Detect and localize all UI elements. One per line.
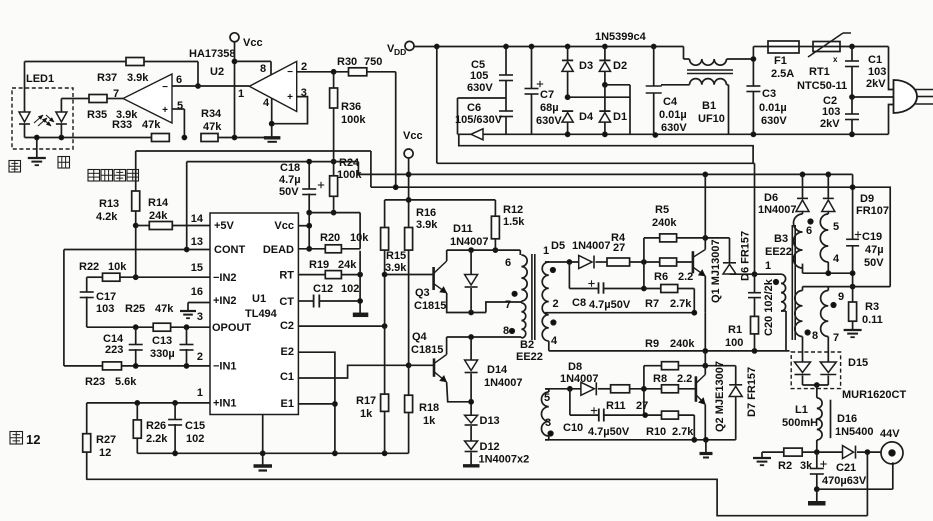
thermistor RT1 <box>799 46 813 48</box>
output terminal 44V <box>881 442 903 464</box>
svg-text:240k: 240k <box>670 338 695 350</box>
svg-text:105/630V: 105/630V <box>455 114 503 126</box>
bottom AC bus <box>458 133 889 135</box>
resistor R15 <box>384 200 386 228</box>
svg-text:D4: D4 <box>579 111 594 123</box>
resistor R11 <box>611 385 630 393</box>
svg-text:4: 4 <box>263 97 270 109</box>
label red <box>9 161 21 173</box>
wire pin2 out <box>297 71 349 73</box>
svg-text:+IN1: +IN1 <box>213 398 237 410</box>
resistor R16 <box>405 228 413 251</box>
svg-text:Q4: Q4 <box>412 331 428 343</box>
aux phase dots top <box>808 219 813 224</box>
svg-text:+IN2: +IN2 <box>213 295 237 307</box>
fuse F1 <box>768 41 799 53</box>
svg-text:R19: R19 <box>309 259 329 271</box>
svg-text:1.5k: 1.5k <box>503 216 525 228</box>
svg-text:5: 5 <box>833 221 839 233</box>
resistor R37 <box>25 61 127 63</box>
svg-text:4.7µ: 4.7µ <box>279 174 301 186</box>
lower aux winding D <box>827 287 829 291</box>
VDD rail to primary <box>437 162 755 164</box>
svg-text:27: 27 <box>636 400 648 412</box>
choke B1 <box>683 47 685 60</box>
IC U1 TL494 box <box>210 213 298 415</box>
svg-text:D9: D9 <box>860 193 874 205</box>
wire pin1 +IN1 <box>87 402 210 404</box>
svg-text:1N4007: 1N4007 <box>450 236 489 248</box>
svg-text:R18: R18 <box>419 402 439 414</box>
wire C10 branch <box>569 389 571 415</box>
wire pin1-D5 <box>545 261 579 263</box>
svg-text:4.2k: 4.2k <box>96 211 118 223</box>
svg-text:Q2 MJE13007: Q2 MJE13007 <box>714 361 726 432</box>
svg-text:R30: R30 <box>337 56 357 68</box>
svg-text:Q1 MJ13007: Q1 MJ13007 <box>710 239 722 303</box>
svg-text:1N4007: 1N4007 <box>484 377 523 389</box>
svg-text:1: 1 <box>238 88 244 100</box>
svg-text:C1815: C1815 <box>411 344 443 356</box>
svg-text:NTC50-11: NTC50-11 <box>797 80 847 92</box>
svg-text:3.9k: 3.9k <box>127 72 149 84</box>
svg-text:B2: B2 <box>520 339 534 351</box>
transistor Q1 <box>692 251 695 273</box>
capacitor C20 <box>748 292 761 294</box>
svg-text:12: 12 <box>26 432 40 447</box>
B2 secondary upper <box>542 262 549 341</box>
svg-text:44V: 44V <box>880 428 900 440</box>
svg-text:R3: R3 <box>865 301 879 313</box>
svg-text:47k: 47k <box>203 121 222 133</box>
VDD drop wire <box>436 47 438 164</box>
svg-text:47k: 47k <box>155 303 174 315</box>
B2 pin8 wire <box>520 337 522 338</box>
wire E1 pin <box>298 403 335 405</box>
plug symbol <box>894 80 917 113</box>
resistor R5 <box>660 234 677 242</box>
wire RT1 to plug <box>840 46 889 48</box>
pot feed wire <box>136 150 371 152</box>
arrow on bus <box>471 129 483 140</box>
svg-text:7: 7 <box>505 299 511 311</box>
svg-text:C7: C7 <box>540 89 554 101</box>
svg-text:C15: C15 <box>185 420 205 432</box>
resistor R33 <box>152 134 170 142</box>
wire left feedback <box>63 250 65 366</box>
svg-text:UF10: UF10 <box>698 113 725 125</box>
diode D3 <box>567 47 569 61</box>
svg-text:R23: R23 <box>85 376 105 388</box>
svg-text:4.7µ50V: 4.7µ50V <box>589 299 631 311</box>
svg-text:C6: C6 <box>467 102 481 114</box>
svg-text:0.11: 0.11 <box>862 314 883 326</box>
svg-text:C1: C1 <box>868 54 882 66</box>
svg-text:L1: L1 <box>795 404 808 416</box>
svg-text:0.01µ: 0.01µ <box>659 109 687 121</box>
svg-text:−: − <box>287 67 293 78</box>
diode D14 <box>470 337 472 360</box>
primary feed drop <box>754 163 756 274</box>
svg-text:D15: D15 <box>848 357 868 369</box>
resistor R27 <box>83 434 91 452</box>
diode D4 <box>562 110 573 112</box>
svg-text:Vcc: Vcc <box>403 130 423 142</box>
svg-text:5: 5 <box>544 392 550 404</box>
B2 sec lower phase dot <box>548 431 553 436</box>
resistor R12 <box>494 200 496 216</box>
lower aux winding C <box>802 287 804 291</box>
resistor R19 <box>298 274 325 276</box>
ground D12 <box>463 464 480 467</box>
svg-text:C1815: C1815 <box>414 300 446 312</box>
svg-text:−IN1: −IN1 <box>213 361 237 373</box>
ground C21 <box>816 489 818 501</box>
svg-text:R5: R5 <box>655 204 669 216</box>
capacitor C4 <box>653 47 655 87</box>
wire pin5 <box>172 108 184 110</box>
ground R2 <box>761 452 763 458</box>
capacitor C8 <box>598 282 600 293</box>
label yellow <box>58 157 70 169</box>
plug mid wire <box>852 96 894 98</box>
svg-text:CONT: CONT <box>214 244 245 256</box>
svg-text:223: 223 <box>105 344 123 356</box>
ground Q2 <box>700 452 713 455</box>
capacitor C14 <box>135 327 137 344</box>
svg-text:EE22: EE22 <box>516 351 543 363</box>
resistor R4 <box>607 258 630 266</box>
svg-text:630V: 630V <box>761 115 787 127</box>
svg-text:R1: R1 <box>728 324 742 336</box>
svg-text:8: 8 <box>260 63 266 75</box>
capacitor C1 <box>851 47 853 62</box>
svg-text:R2: R2 <box>778 460 792 472</box>
svg-text:C19: C19 <box>862 231 882 243</box>
resistor R6 <box>660 258 677 266</box>
LED D-yellow <box>56 112 67 122</box>
bus upper rail <box>385 199 496 201</box>
collector rail Q4 <box>447 336 522 338</box>
wire pin3 OPOUT <box>87 326 154 328</box>
transformer B2 primary <box>519 250 521 255</box>
svg-text:D2: D2 <box>613 60 627 72</box>
svg-text:R34: R34 <box>201 108 222 120</box>
resistor R14 <box>136 225 150 227</box>
collector rail 250 <box>447 249 521 251</box>
svg-text:50V: 50V <box>864 257 884 269</box>
diode D8 <box>581 382 594 395</box>
wire R37 to pin6 <box>197 62 199 87</box>
svg-text:E1: E1 <box>281 398 294 410</box>
B2 core <box>531 254 533 340</box>
svg-text:630V: 630V <box>661 122 687 134</box>
B2 pin7 tap <box>486 302 522 313</box>
svg-text:C20 102/2k: C20 102/2k <box>763 278 775 336</box>
svg-text:2kV: 2kV <box>820 118 840 130</box>
svg-text:4: 4 <box>833 253 840 265</box>
svg-text:R13: R13 <box>99 198 119 210</box>
svg-text:102: 102 <box>186 433 204 445</box>
svg-text:2.7k: 2.7k <box>670 298 692 310</box>
diode D13 <box>465 415 478 423</box>
svg-text:D8: D8 <box>568 361 582 373</box>
svg-text:R26: R26 <box>146 420 166 432</box>
svg-text:1: 1 <box>543 245 549 257</box>
svg-text:8: 8 <box>503 325 509 337</box>
svg-text:R27: R27 <box>96 434 116 446</box>
output rail <box>762 451 784 453</box>
diode D12 <box>465 441 478 450</box>
svg-text:RT: RT <box>279 270 294 282</box>
resistor R25 <box>153 323 170 331</box>
lower aux line <box>803 286 891 288</box>
svg-text:B1: B1 <box>702 100 716 112</box>
svg-text:C8: C8 <box>572 297 586 309</box>
diode D2 <box>604 47 606 61</box>
wire LED bottoms <box>25 137 152 139</box>
svg-text:3: 3 <box>197 311 203 323</box>
wire pin16 ground <box>188 302 210 304</box>
bridge left mid <box>565 95 570 100</box>
aux vcc bus <box>358 173 852 175</box>
D15 diode a <box>802 352 804 362</box>
bridge right mid <box>603 82 608 87</box>
svg-text:C18: C18 <box>280 162 300 174</box>
svg-text:R11: R11 <box>606 400 626 412</box>
ground bus <box>137 452 408 454</box>
svg-text:E2: E2 <box>281 346 294 358</box>
B2 secondary lower <box>541 392 548 436</box>
svg-text:LED1: LED1 <box>26 73 54 85</box>
svg-text:R33: R33 <box>112 119 132 131</box>
capacitor C17 <box>86 277 88 292</box>
wire pin13 <box>64 249 210 251</box>
B2 pin2 tap wire <box>545 312 694 314</box>
svg-text:C1: C1 <box>280 371 294 383</box>
svg-text:R15: R15 <box>386 250 406 262</box>
resistor R23 <box>103 362 122 370</box>
svg-text:500mH: 500mH <box>782 417 818 429</box>
capacitor C2 <box>851 97 853 114</box>
lower aux phase dots <box>831 302 836 307</box>
diode D5 <box>579 256 592 269</box>
svg-text:9: 9 <box>838 291 844 303</box>
wire pin5-D8 <box>545 388 581 390</box>
opto arrows <box>34 115 43 123</box>
R9 bus <box>549 350 790 352</box>
svg-text:750: 750 <box>364 56 382 68</box>
wire R8 branch <box>643 366 645 416</box>
svg-text:D3: D3 <box>579 60 593 72</box>
svg-text:13: 13 <box>191 236 203 248</box>
svg-text:1N4007: 1N4007 <box>572 240 611 252</box>
svg-text:2.5A: 2.5A <box>771 68 794 80</box>
svg-text:F1: F1 <box>774 55 787 67</box>
resistor R7 <box>661 285 678 293</box>
svg-text:3k: 3k <box>800 460 813 472</box>
snubber diode D6 FR157 <box>729 238 731 263</box>
LED D-red <box>24 62 26 113</box>
label current-limit-adjust <box>88 170 100 182</box>
aux winding A <box>802 174 804 198</box>
svg-text:D1: D1 <box>613 111 627 123</box>
svg-text:102: 102 <box>341 283 359 295</box>
svg-text:TL494: TL494 <box>245 308 278 320</box>
plug top wire <box>889 47 894 90</box>
capacitor C6 <box>499 110 513 112</box>
aux winding B <box>827 174 829 198</box>
svg-text:HA17358: HA17358 <box>189 48 235 60</box>
svg-text:47k: 47k <box>142 119 161 131</box>
svg-text:1k: 1k <box>360 408 373 420</box>
wire Q1 emitter down <box>704 313 706 351</box>
transistor Q4 <box>433 358 436 376</box>
svg-text:C12: C12 <box>313 283 333 295</box>
svg-text:D6: D6 <box>764 192 778 204</box>
capacitor C7 electrolytic <box>531 47 533 89</box>
svg-text:1: 1 <box>197 387 203 399</box>
svg-text:6: 6 <box>806 225 812 237</box>
wire C1 pin <box>298 365 408 378</box>
svg-text:x: x <box>833 55 838 64</box>
svg-text:Vcc: Vcc <box>274 220 294 232</box>
B3 core <box>791 225 793 340</box>
AC return rail <box>459 134 753 163</box>
svg-text:R12: R12 <box>503 204 523 216</box>
svg-text:R10: R10 <box>646 426 666 438</box>
diode D9 aux <box>823 197 834 199</box>
diode D11 <box>470 250 472 274</box>
wire Vcc pin TL494 <box>298 225 309 227</box>
svg-text:7: 7 <box>833 332 839 344</box>
svg-text:1k: 1k <box>423 415 436 427</box>
svg-text:D14: D14 <box>487 364 508 376</box>
svg-text:6: 6 <box>176 74 182 86</box>
svg-text:R36: R36 <box>341 101 361 113</box>
svg-text:10k: 10k <box>108 261 127 273</box>
svg-text:50V: 50V <box>279 186 299 198</box>
svg-text:C21: C21 <box>836 462 856 474</box>
svg-text:C13: C13 <box>152 335 172 347</box>
svg-text:R25: R25 <box>125 303 145 315</box>
svg-text:1N5400: 1N5400 <box>835 426 874 438</box>
svg-text:R9: R9 <box>645 338 659 350</box>
svg-text:R7: R7 <box>645 298 659 310</box>
svg-text:D16: D16 <box>837 413 857 425</box>
svg-text:−: − <box>162 82 168 93</box>
resistor R36 <box>333 72 335 88</box>
ground R3 <box>844 329 862 331</box>
svg-text:D7 FR157: D7 FR157 <box>746 367 758 417</box>
resistor R24 <box>330 176 338 197</box>
svg-text:103: 103 <box>822 106 840 118</box>
svg-text:C4: C4 <box>663 96 678 108</box>
wire pin6 to U2b output <box>172 85 249 87</box>
resistor R22 <box>87 276 103 278</box>
resistor R8 <box>662 362 679 370</box>
diode D6 aux <box>797 197 808 199</box>
wire R30 to bus <box>367 71 396 73</box>
svg-text:630V: 630V <box>536 115 562 127</box>
svg-text:+: + <box>287 92 293 103</box>
svg-text:16: 16 <box>191 286 203 298</box>
ground RT <box>353 313 369 318</box>
inductor L1 <box>817 398 822 440</box>
plug bottom wire <box>889 105 894 135</box>
svg-text:1N5399c4: 1N5399c4 <box>595 31 647 43</box>
svg-text:C17: C17 <box>96 291 116 303</box>
svg-text:4: 4 <box>551 335 558 347</box>
wire R5 branch <box>643 238 645 289</box>
transformer B3 primary <box>755 273 782 275</box>
svg-text:24k: 24k <box>338 259 357 271</box>
ground under LED1 <box>36 138 38 159</box>
svg-text:C10: C10 <box>563 422 583 434</box>
B2 phase dots <box>512 291 517 296</box>
wire C8 branch <box>568 262 570 289</box>
svg-text:R35: R35 <box>87 109 107 121</box>
svg-text:240k: 240k <box>652 217 677 229</box>
svg-text:6: 6 <box>505 257 511 269</box>
svg-text:2.2k: 2.2k <box>146 433 168 445</box>
svg-text:630V: 630V <box>467 82 493 94</box>
svg-text:15: 15 <box>191 262 203 274</box>
optocoupler LED1 dashed box <box>12 88 73 149</box>
svg-text:CT: CT <box>279 296 294 308</box>
wire C2 pin <box>298 325 384 327</box>
emitter ground line <box>545 439 736 441</box>
svg-text:5: 5 <box>177 100 183 112</box>
svg-text:D11: D11 <box>453 223 473 235</box>
svg-text:100: 100 <box>725 337 743 349</box>
capacitor C13 <box>186 327 188 344</box>
D15 output join <box>803 384 829 386</box>
svg-text:0.01µ: 0.01µ <box>759 102 787 114</box>
ground U2b <box>264 136 281 139</box>
svg-text:R16: R16 <box>416 207 436 219</box>
capacitor C5 <box>505 47 507 76</box>
svg-text:R22: R22 <box>79 261 99 273</box>
resistor R18 <box>408 365 410 395</box>
wire bus pin13 feed <box>187 161 359 163</box>
pin 4 wire U2b <box>271 98 273 137</box>
svg-text:24k: 24k <box>149 210 168 222</box>
svg-text:D12: D12 <box>480 441 500 453</box>
svg-text:47µ: 47µ <box>865 244 884 256</box>
svg-text:10k: 10k <box>350 232 369 244</box>
diode D16 <box>843 446 854 459</box>
svg-text:Vcc: Vcc <box>243 37 263 49</box>
resistor R20 <box>298 248 325 250</box>
resistor R3 <box>849 302 857 321</box>
svg-text:100k: 100k <box>341 114 366 126</box>
capacitor C12 <box>298 300 313 302</box>
svg-text:4.7µ50V: 4.7µ50V <box>588 426 630 438</box>
aux bottoms line <box>802 264 804 274</box>
svg-text:R37: R37 <box>97 72 117 84</box>
svg-text:R17: R17 <box>356 395 376 407</box>
pin 8 wire <box>235 60 272 62</box>
svg-text:C3: C3 <box>762 88 776 100</box>
transistor Q3 <box>432 267 435 290</box>
svg-text:1: 1 <box>765 260 771 272</box>
svg-text:R6: R6 <box>654 271 668 283</box>
svg-text:3: 3 <box>545 417 551 429</box>
pin 3 wire U2b <box>272 97 308 124</box>
Vcc terminal mid <box>404 149 413 158</box>
svg-text:OPOUT: OPOUT <box>212 322 251 334</box>
